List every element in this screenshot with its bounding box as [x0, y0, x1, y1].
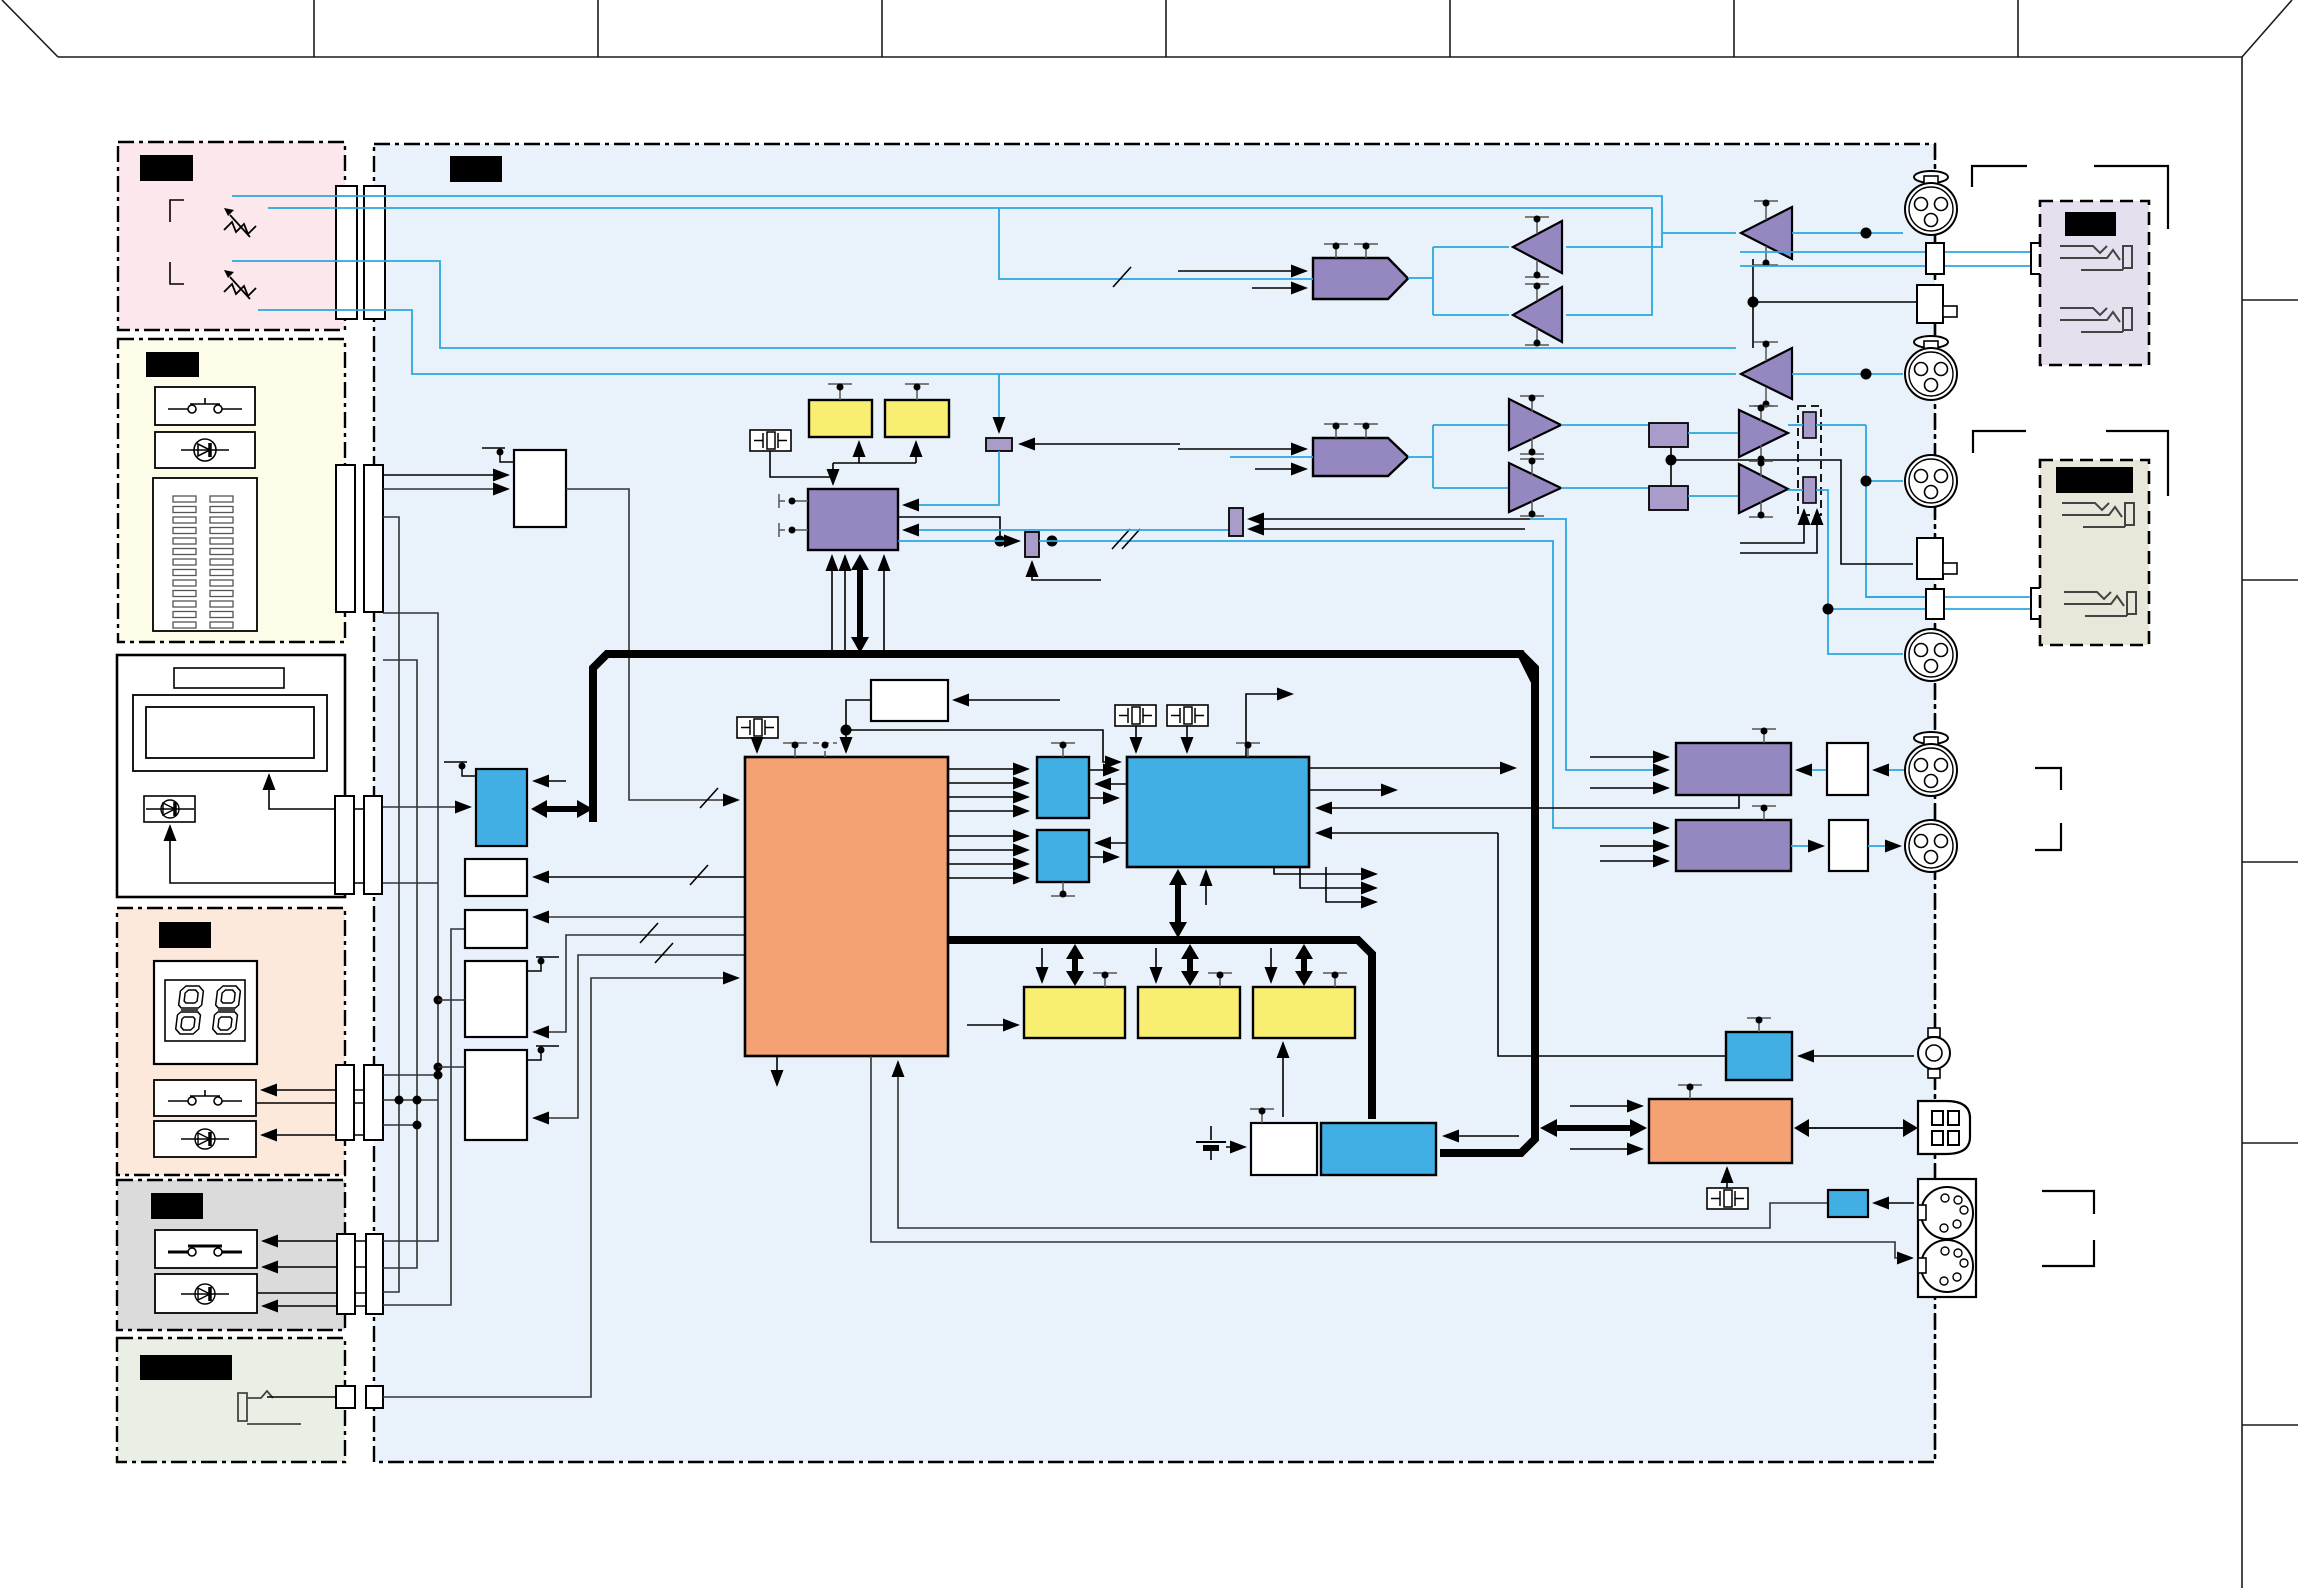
- headphone preamp T6: [1509, 463, 1561, 512]
- wire SRC monitor in: [904, 529, 1232, 531]
- wire into USB ctrl a: [1570, 1105, 1642, 1107]
- bracket pair 3 top: [2035, 768, 2061, 790]
- CPU down stub: [776, 1056, 778, 1085]
- SB1 power stub: [1051, 743, 1075, 757]
- CPU to SB1 wires: [948, 769, 1028, 811]
- slash digital out 1: [1112, 529, 1140, 549]
- volume element v1: [1803, 412, 1816, 438]
- wire keys to scan 1: [383, 474, 508, 476]
- T1 power dot top: [1763, 200, 1770, 207]
- CPU power stub 2: [813, 743, 837, 757]
- connector pair E main side: [366, 1234, 383, 1314]
- sensor symbol upper: [224, 208, 256, 237]
- LCD ctrl bus double arrow: [531, 800, 593, 818]
- SRC crystal: [750, 430, 791, 451]
- pentagon2 power dot 2: [1363, 423, 1370, 430]
- wire crystal2 to DSP: [1186, 726, 1188, 752]
- DSP crystal 2: [1167, 705, 1208, 726]
- cyan m2 to T8: [1688, 495, 1739, 497]
- green pedal jack section box: [117, 1338, 345, 1462]
- SRC power stub 2: [779, 523, 808, 537]
- LCD controller blue box: [476, 769, 527, 846]
- RAM1 thin arrow: [1041, 948, 1043, 982]
- wire crystal to CPU: [756, 738, 758, 752]
- slash pentagon1 line: [1113, 267, 1131, 287]
- bracket mark lower: [170, 262, 184, 284]
- connector pair A board side: [336, 186, 357, 319]
- wire bus3 to W3: [438, 999, 465, 1001]
- bracket pair 2 left: [1973, 431, 2026, 453]
- right connector RC1: [1926, 243, 1944, 274]
- connector pair D main side: [364, 1065, 383, 1140]
- wire to speaker connector RB1: [1753, 301, 1917, 303]
- cyan XLR3 feed vertical: [1866, 425, 1926, 597]
- wire ctrl to r1: [1020, 443, 1180, 445]
- DSP power stub: [1236, 743, 1260, 757]
- main board label: [450, 156, 502, 182]
- headphone amp T7: [1739, 410, 1788, 457]
- wires into ADC2: [1600, 846, 1668, 861]
- DSP in from pedal net: [1317, 832, 1498, 834]
- wire adc return: [1530, 519, 1668, 770]
- PMIC white box: [1251, 1123, 1317, 1175]
- LCD label plate: [174, 668, 284, 688]
- gray switch section box: [117, 1180, 345, 1330]
- DSP power dot: [1245, 742, 1252, 749]
- ADC purple 1: [1676, 743, 1791, 795]
- T3 power dot bottom: [1534, 272, 1541, 279]
- MIDI DIN 1: [1918, 1187, 1973, 1239]
- sensor symbol lower: [224, 270, 256, 299]
- panel bus line 1: [383, 517, 399, 1292]
- wire into pentagon1 a: [1178, 270, 1306, 272]
- wire into r3 a: [1249, 518, 1530, 520]
- power amp T1: [1741, 207, 1792, 259]
- junction T1 out: [1861, 228, 1872, 239]
- ADC2 power dot: [1761, 805, 1768, 812]
- bracket pair 2 right: [2106, 431, 2168, 496]
- G_RIGHT: [232, 144, 2168, 1462]
- junction dots panel bus: [395, 996, 443, 1130]
- T5 power stub top: [1520, 396, 1544, 412]
- DSP block: [1127, 757, 1309, 867]
- T4 power stub bottom: [1525, 328, 1549, 345]
- DSP top out wire: [1246, 694, 1292, 757]
- T1 power stub top: [1754, 201, 1778, 220]
- bracket pair 1 left: [1972, 166, 2027, 187]
- SRC aux line 2: [844, 556, 846, 650]
- reset box W5: [871, 680, 948, 721]
- branch salmon pin 3: [383, 1124, 417, 1126]
- wire clock net to RAM2: [915, 442, 917, 463]
- XLR 2: [1905, 336, 1957, 400]
- cyan branch L1 to T1: [1662, 232, 1736, 234]
- sheet top-right diagonal: [2242, 0, 2292, 57]
- wire into reset box: [954, 699, 1060, 701]
- RAM2 thin arrow: [1155, 948, 1157, 982]
- T4 power dot top: [1534, 283, 1541, 290]
- branch salmon pin 2: [383, 1099, 438, 1101]
- salmon LED symbol: [181, 1129, 229, 1149]
- CPU midi TX line: [871, 1056, 1912, 1258]
- r2 out junction dot: [1047, 536, 1058, 547]
- lavender speaker box: [2040, 201, 2149, 365]
- connector pair C main side: [364, 796, 382, 894]
- USB crystal: [1707, 1188, 1748, 1209]
- bracket pair 4 top: [2042, 1191, 2094, 1214]
- DSP out right short: [1309, 789, 1396, 791]
- T8 power dot top: [1758, 460, 1765, 467]
- speaker amp T4: [1513, 287, 1562, 342]
- USB ctrl to USB port double arrow: [1794, 1119, 1918, 1137]
- green section label: [140, 1355, 232, 1380]
- volume ctrl arrow 1: [1740, 510, 1804, 543]
- pentagon2 power stub 2: [1354, 424, 1378, 438]
- glue logic SB2: [1037, 830, 1089, 882]
- W3 power dot: [538, 958, 545, 965]
- work RAM 1: [1024, 987, 1125, 1038]
- T6 power dot bottom: [1529, 511, 1536, 518]
- T4 power dot bottom: [1534, 340, 1541, 347]
- T5 power stub bottom: [1520, 438, 1544, 454]
- junction v2 branch: [1823, 604, 1834, 615]
- junction T2 out: [1861, 369, 1872, 380]
- LED D: [181, 439, 229, 461]
- SRC power dot 1: [789, 498, 796, 505]
- headphone amp T8: [1739, 464, 1788, 513]
- wire SRC ctrl in: [898, 517, 1000, 541]
- branch LCD connector to bus3: [383, 882, 438, 884]
- RAM2 bus double arrow: [1181, 944, 1199, 986]
- cyan T8 to v2: [1788, 489, 1803, 491]
- RAM1 power stub: [1093, 973, 1117, 987]
- RB2 tab: [1943, 563, 1957, 574]
- gray switch symbol: [168, 1246, 242, 1256]
- pentagon1 power stub 2: [1354, 244, 1378, 258]
- T3 power stub bottom: [1525, 260, 1549, 277]
- salmon section label: [159, 922, 211, 948]
- T6 power dot top: [1529, 458, 1536, 465]
- phone jack ctrl blue: [1726, 1032, 1792, 1080]
- pentagon1 power dot 1: [1333, 243, 1340, 250]
- wire MIDI in to driver: [1874, 1202, 1914, 1204]
- LCD backlight LED cell: [144, 796, 195, 822]
- wire clock net to RAM1: [858, 442, 860, 463]
- salmon switch symbol: [168, 1090, 242, 1105]
- wire reset to CPU: [846, 700, 871, 752]
- olive jack 1: [2062, 503, 2134, 527]
- yellow panel switch section box: [118, 339, 345, 642]
- cyan T5 to m1: [1561, 424, 1649, 426]
- SB2 power dot: [1060, 891, 1067, 898]
- key scan power dot: [497, 449, 504, 456]
- m1-m2 link: [1670, 447, 1672, 486]
- headphone preamp T5: [1509, 399, 1561, 450]
- glue logic SB1: [1037, 757, 1089, 818]
- ADC2 power stub: [1752, 806, 1776, 820]
- jack ctrl power dot: [1756, 1017, 1763, 1024]
- backlight LED symbol: [146, 800, 194, 818]
- cyan line L3: [232, 261, 1736, 348]
- wire reset to DSP: [846, 730, 1120, 762]
- lavender label: [2065, 212, 2116, 236]
- LCD glass: [146, 707, 314, 758]
- backup battery: [1196, 1126, 1226, 1160]
- CPU power stub 1: [783, 743, 807, 757]
- volume element v2: [1803, 477, 1816, 503]
- main CPU: [745, 757, 948, 1056]
- wire C connector to LCD ctrl: [383, 806, 470, 808]
- wire battery to PMIC: [1226, 1146, 1245, 1148]
- slash scan bus: [700, 788, 718, 808]
- USB controller orange: [1649, 1099, 1792, 1163]
- LCD module outer: [133, 695, 327, 771]
- RAM3 bus double arrow: [1295, 944, 1313, 986]
- cyan line L2 speaker L: [268, 208, 1652, 315]
- mute relay m2: [1649, 486, 1688, 510]
- SB1 to DSP wires: [1089, 770, 1160, 798]
- W4 power stub: [527, 1046, 559, 1060]
- DSP in from DAC loop: [1317, 795, 1739, 808]
- wire into r3 b: [1249, 528, 1525, 530]
- wire CPU to W1: [534, 876, 745, 878]
- reset net junction: [841, 725, 852, 736]
- cyan RC2 pin1 run: [1866, 596, 1926, 598]
- wire to salmon switch: [262, 1089, 364, 1091]
- pentagon1 power stub 1: [1324, 244, 1348, 258]
- SB2 to DSP wires: [1089, 843, 1160, 857]
- wire T1 interstage: [1752, 259, 1754, 348]
- cyan line L4: [258, 310, 1736, 374]
- lavender jack 1: [2060, 246, 2132, 270]
- column divider ticks: [314, 0, 2018, 57]
- sheet top border line: [58, 56, 2242, 58]
- driver box W3: [465, 961, 527, 1037]
- T1 power dot bottom: [1763, 260, 1770, 267]
- buffer RAM2 yellow: [885, 400, 949, 437]
- G_REGIONS: [117, 142, 1935, 1462]
- output buffer WD2: [1829, 820, 1868, 871]
- wire into LCD ctrl right: [534, 780, 566, 782]
- volume dashed box: [1798, 406, 1821, 515]
- cyan ADC2 to WD2: [1791, 845, 1823, 847]
- main digital board region: [374, 144, 1935, 1462]
- LCD ctrl power stub: [444, 762, 476, 776]
- slash W1 bus: [690, 865, 708, 885]
- wire into controller right: [1444, 1135, 1519, 1137]
- wire jack to ctrl: [1799, 1055, 1914, 1057]
- T7 power stub top: [1749, 406, 1773, 422]
- right connector RB1: [1917, 285, 1943, 323]
- pedal jack symbol: [238, 1391, 301, 1424]
- volume ctrl arrow 2: [1740, 510, 1817, 553]
- cyan v1 to XLR3 net: [1816, 424, 1866, 426]
- LCD ctrl power dot: [459, 763, 466, 770]
- LED cell: [155, 432, 255, 468]
- wires into ADC1: [1590, 757, 1668, 788]
- CPU to SB2 wires: [948, 836, 1028, 878]
- gray LED symbol: [181, 1284, 229, 1304]
- wire jack ctrl to DSP net: [1498, 833, 1726, 1056]
- T7 power dot bottom: [1758, 456, 1765, 463]
- cyan line L1 speaker R: [232, 196, 1662, 247]
- wire LCD data: [269, 775, 364, 809]
- RAM1 power stub: [828, 384, 852, 400]
- cyan into pentagon1: [999, 208, 1313, 279]
- T1 power stub bottom: [1754, 246, 1778, 265]
- cyan XLR5 to ADC1: [1797, 769, 1827, 771]
- input buffer WD1: [1827, 743, 1868, 795]
- wire mute ctrl: [1671, 460, 1913, 564]
- USB ctrl bus double arrow: [1540, 1119, 1647, 1137]
- SRC aux line 3: [883, 556, 885, 650]
- gray section label: [151, 1193, 203, 1219]
- MIDI connector block: [1918, 1179, 1976, 1297]
- CPU midi RX line: [898, 1062, 1828, 1228]
- system controller blue: [1321, 1123, 1436, 1175]
- power amp T2: [1741, 348, 1792, 399]
- branch salmon pin 1: [383, 1074, 438, 1076]
- gray switch cell: [155, 1230, 257, 1268]
- work RAM 3: [1253, 987, 1355, 1038]
- DSP serial in stub: [1205, 871, 1207, 905]
- wire clock net to SRC: [832, 463, 834, 484]
- XLR 1: [1905, 171, 1957, 235]
- sheet top-left diagonal: [2, 0, 58, 57]
- panel bus line 3: [383, 613, 438, 1241]
- SRC purple block: [808, 489, 898, 550]
- pink section label: [140, 155, 193, 181]
- wire backlight: [170, 826, 364, 883]
- buffer RAM1 yellow: [809, 400, 872, 437]
- CPU crystal: [737, 717, 778, 738]
- bracket mark upper: [170, 200, 184, 222]
- ADC1 power stub: [1752, 729, 1776, 743]
- connector pair B board side: [336, 465, 355, 612]
- digital in attenuator r1: [986, 438, 1012, 451]
- XLR 4: [1905, 629, 1957, 681]
- RAM1 power dot: [1102, 972, 1109, 979]
- DSP bottom outs: [1274, 867, 1376, 902]
- cyan pentagon1 split: [1408, 247, 1509, 315]
- RAM3 power stub: [1323, 973, 1347, 987]
- wire into USB ctrl b: [1570, 1148, 1642, 1150]
- SRC aux line 1: [831, 556, 833, 650]
- USB ctrl power stub: [1678, 1085, 1702, 1099]
- gray LED cell: [155, 1274, 257, 1313]
- cyan RC2 to olive: [1944, 597, 2031, 609]
- wire bus3 to W4: [438, 1066, 465, 1068]
- CPU power dot 2: [822, 742, 829, 749]
- 7seg bezel: [165, 980, 245, 1041]
- wire CPU to W3: [534, 935, 745, 1032]
- right connector RB2: [1917, 538, 1943, 579]
- slash W4 bus: [655, 943, 673, 963]
- SRC out junction dot: [995, 536, 1006, 547]
- XLR 5: [1905, 732, 1957, 796]
- RAM1 power dot: [837, 384, 844, 391]
- LED array cell: [153, 478, 257, 631]
- PMIC power dot: [1259, 1108, 1266, 1115]
- RAM2 power stub: [1208, 973, 1232, 987]
- T7 power stub bottom: [1749, 445, 1773, 461]
- cyan v2 branch RC2: [1828, 608, 1926, 610]
- wire into RAM3 bottom: [1282, 1043, 1284, 1117]
- wire clock net bar: [833, 462, 916, 464]
- driver box W1: [465, 859, 527, 896]
- cyan v2 out: [1816, 490, 1903, 654]
- speaker amp T3: [1513, 221, 1562, 273]
- DSP to DSP-bus double arrow: [1169, 869, 1187, 938]
- LCD display unit box: [117, 655, 345, 897]
- W3 power stub: [527, 957, 559, 971]
- RAM3 thin arrow: [1270, 948, 1272, 982]
- T8 power stub bottom: [1749, 501, 1773, 517]
- cyan m1 to T7: [1688, 432, 1739, 434]
- wire CPU to W4: [534, 955, 745, 1118]
- ADC1 power dot: [1761, 728, 1768, 735]
- T8 power stub top: [1749, 461, 1773, 477]
- XLR 6: [1905, 820, 1957, 872]
- MIDI DIN 2: [1918, 1240, 1973, 1292]
- RAM1 bus double arrow: [1066, 944, 1084, 986]
- wire pedal jack: [267, 1396, 336, 1398]
- RAM2 power stub: [905, 384, 929, 400]
- pedal wire to CPU: [383, 978, 738, 1397]
- T2 power dot top: [1763, 341, 1770, 348]
- panel bus line 2: [383, 660, 417, 1268]
- wire scan to CPU: [566, 489, 738, 800]
- junction XLR3: [1861, 476, 1872, 487]
- panel bus line 4: [383, 929, 465, 1305]
- junction m link: [1666, 455, 1677, 466]
- T3 power stub top: [1525, 217, 1549, 234]
- wire crystal to SRC clock net: [770, 451, 833, 477]
- bracket pair 4 bottom: [2042, 1240, 2094, 1266]
- wire to gray switch 1: [263, 1240, 366, 1242]
- connector pair E board side: [337, 1234, 355, 1314]
- cyan RC1 to lavender: [1944, 252, 2031, 266]
- SRC power dot 2: [789, 527, 796, 534]
- salmon switch cell: [154, 1080, 256, 1116]
- bracket pair 1 right: [2094, 166, 2168, 229]
- digital out driver r2: [1025, 532, 1039, 557]
- olive output box: [2040, 460, 2149, 645]
- switch SW: [168, 398, 242, 413]
- olive label: [2056, 467, 2133, 493]
- cyan monitor lines to RC1: [1740, 252, 1926, 266]
- G_CENTER: [383, 374, 1912, 1397]
- cyan pentagon2 split: [1408, 425, 1509, 488]
- wire r1 to SRC: [904, 451, 999, 505]
- wire to salmon LED: [262, 1134, 364, 1136]
- connector pair F main side: [366, 1386, 383, 1408]
- T5 power dot bottom: [1529, 449, 1536, 456]
- cyan T2 out: [1792, 373, 1903, 375]
- wire into RAM1 left: [967, 1024, 1018, 1026]
- wire to gray LED: [263, 1305, 366, 1307]
- DSP crystal 1: [1115, 705, 1156, 726]
- XLR 3: [1905, 455, 1957, 507]
- SB2 power stub: [1051, 882, 1075, 896]
- SB1 power dot: [1060, 742, 1067, 749]
- work RAM 2: [1138, 987, 1240, 1038]
- wire from salmon switch: [256, 1102, 364, 1104]
- wire from gray LED: [257, 1292, 366, 1294]
- wire into pentagon1 b: [1252, 287, 1306, 289]
- phone jack connector: [1918, 1028, 1950, 1078]
- SRC power stub 1: [779, 494, 808, 508]
